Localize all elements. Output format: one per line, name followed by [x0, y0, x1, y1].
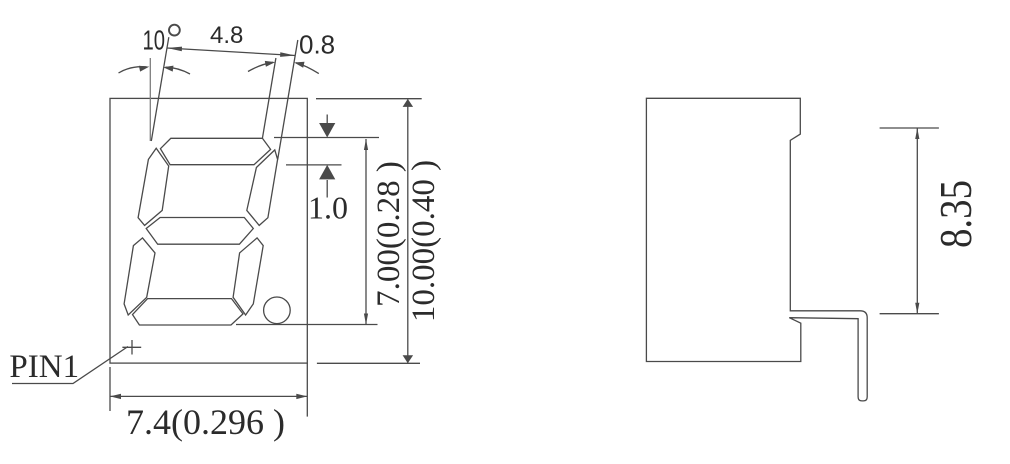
arc arrow right toward line2	[296, 63, 319, 74]
svg-text:10.00(0.40 ): 10.00(0.40 )	[406, 160, 442, 322]
dimension line 10.00	[407, 100, 409, 363]
extension line bottom 8.35	[880, 313, 939, 315]
segment D	[133, 299, 244, 325]
segment C	[233, 238, 263, 315]
slant extension line 2 (outer edge B/C)	[278, 40, 298, 159]
svg-text:10: 10	[143, 24, 166, 55]
side view body outline with lead	[646, 98, 867, 401]
slant extension line left (outer edge F/E)	[151, 37, 169, 141]
extension line right below package	[306, 363, 308, 417]
arc arrow right of slant line	[166, 67, 191, 74]
segment G	[146, 218, 253, 245]
leader line PIN1	[12, 347, 128, 384]
svg-text:4.8: 4.8	[210, 22, 243, 49]
dimension line 8.35	[916, 128, 918, 314]
slant extension line 1 (segment A top-right corner)	[262, 58, 276, 138]
segment F	[138, 148, 169, 225]
extension line top 8.35	[880, 127, 939, 129]
extension line bottom right	[317, 362, 420, 364]
svg-text:7.00(0.28 ): 7.00(0.28 )	[371, 161, 407, 307]
segment E	[124, 238, 155, 315]
svg-text:8.35: 8.35	[930, 180, 981, 248]
segment A	[160, 138, 270, 164]
dimension line 7.00	[365, 139, 367, 325]
svg-text:1.0: 1.0	[308, 190, 348, 226]
decimal point	[264, 297, 291, 324]
dimension line 4.8	[167, 48, 295, 56]
pin1 cross marker	[122, 346, 141, 348]
arc arrow left toward line1	[248, 62, 273, 71]
extension line top of segment A	[274, 137, 379, 139]
arrow down to top line	[326, 115, 328, 125]
svg-text:PIN1: PIN1	[9, 349, 79, 385]
svg-text:0.8: 0.8	[299, 30, 335, 60]
extension line left below package	[109, 367, 111, 411]
dimension line 7.4	[110, 395, 307, 397]
extension line top right	[316, 98, 422, 100]
arrow up to bottom line	[326, 180, 328, 198]
vertical reference line for 10 deg angle	[149, 58, 151, 141]
package outline front view	[110, 98, 307, 363]
arc arrow left of vertical line	[119, 67, 147, 73]
segment B	[247, 150, 278, 226]
extension line digit bottom	[236, 324, 378, 326]
extension line bottom of segment A	[286, 164, 342, 166]
svg-text:7.4(0.296 ): 7.4(0.296 )	[126, 402, 285, 442]
